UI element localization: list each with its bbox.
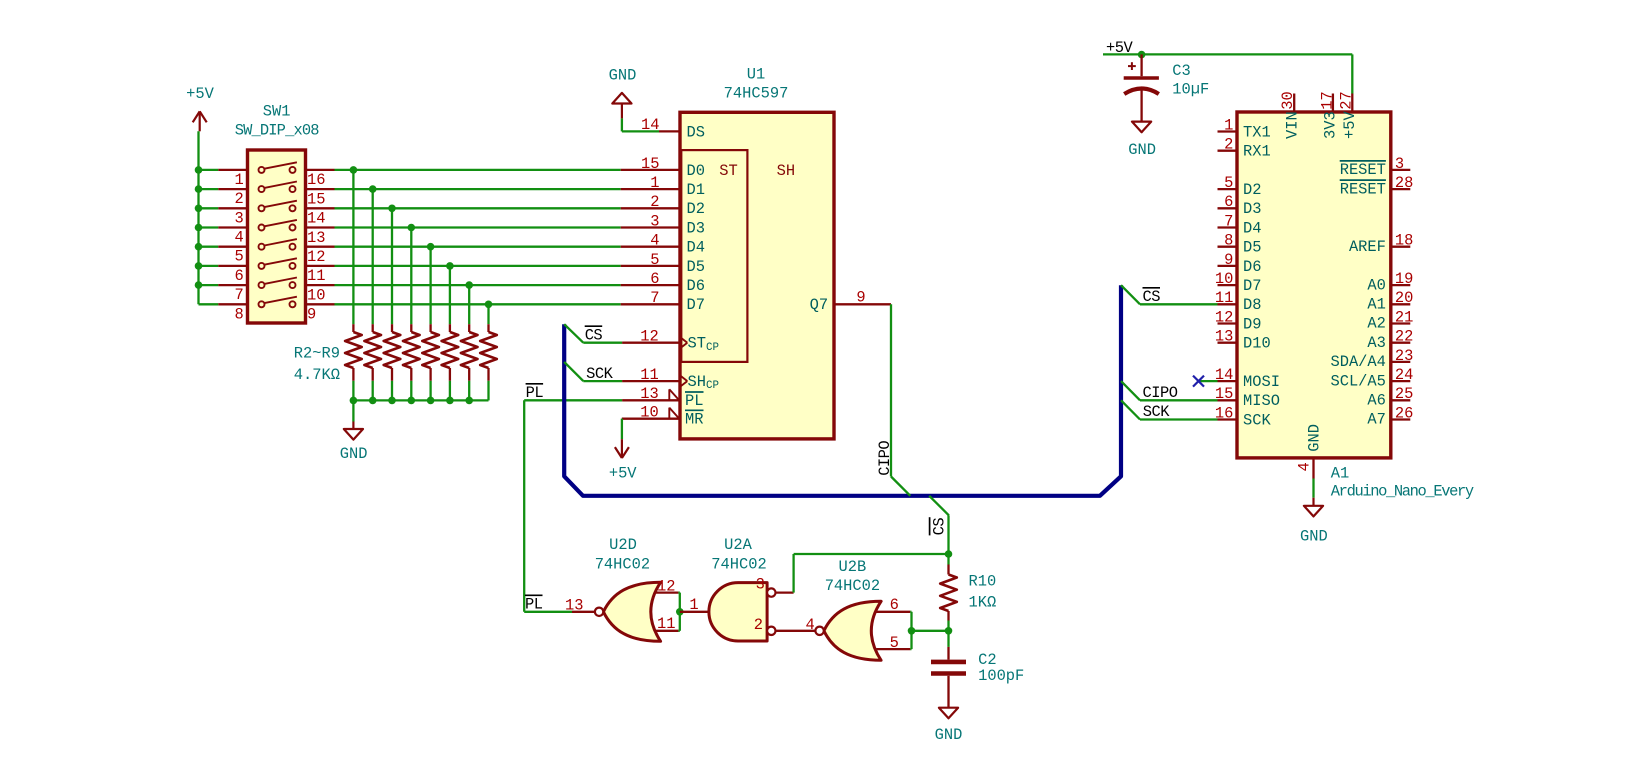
svg-text:+5V: +5V [609, 465, 637, 483]
svg-text:7: 7 [650, 289, 659, 307]
svg-text:MOSI: MOSI [1243, 373, 1280, 391]
svg-text:11: 11 [307, 267, 325, 285]
svg-text:28: 28 [1395, 174, 1413, 192]
svg-text:Q7: Q7 [810, 296, 828, 314]
svg-text:13: 13 [1215, 328, 1233, 346]
svg-text:U2A: U2A [724, 536, 752, 554]
svg-text:4: 4 [650, 232, 659, 250]
svg-text:6: 6 [235, 267, 244, 285]
svg-text:GND: GND [935, 726, 963, 744]
svg-text:SCK: SCK [586, 365, 613, 383]
svg-text:26: 26 [1395, 404, 1413, 422]
svg-text:1: 1 [689, 596, 698, 614]
svg-text:9: 9 [1224, 251, 1233, 269]
svg-text:12: 12 [640, 328, 658, 346]
svg-text:VIN: VIN [1284, 111, 1302, 139]
svg-text:A3: A3 [1367, 334, 1385, 352]
svg-text:4: 4 [805, 616, 814, 634]
svg-text:AREF: AREF [1349, 238, 1386, 256]
svg-text:GND: GND [1128, 141, 1156, 159]
svg-text:8: 8 [235, 305, 244, 323]
svg-text:17: 17 [1318, 91, 1336, 109]
svg-text:8: 8 [1224, 232, 1233, 250]
svg-text:4: 4 [1296, 462, 1314, 471]
svg-text:9: 9 [307, 306, 316, 324]
svg-text:3: 3 [1395, 155, 1404, 173]
svg-text:A1: A1 [1367, 296, 1385, 314]
svg-text:11: 11 [640, 366, 658, 384]
svg-text:SW_DIP_x08: SW_DIP_x08 [235, 122, 320, 140]
svg-text:12: 12 [307, 248, 325, 266]
svg-text:PL: PL [685, 392, 703, 410]
svg-text:D10: D10 [1243, 335, 1271, 353]
svg-text:R10: R10 [969, 572, 997, 590]
svg-text:U2B: U2B [839, 558, 867, 576]
svg-text:CIPO: CIPO [1143, 384, 1178, 402]
svg-text:16: 16 [307, 171, 325, 189]
svg-text:5: 5 [890, 634, 899, 652]
svg-text:R2~R9: R2~R9 [294, 345, 340, 363]
svg-text:2: 2 [650, 193, 659, 211]
svg-text:D3: D3 [1243, 200, 1261, 218]
svg-text:74HC02: 74HC02 [595, 556, 650, 574]
svg-text:9: 9 [856, 288, 865, 306]
svg-text:3V3: 3V3 [1322, 111, 1340, 139]
svg-text:5: 5 [1224, 174, 1233, 192]
svg-text:13: 13 [565, 596, 583, 614]
svg-text:2: 2 [754, 616, 763, 634]
svg-text:A0: A0 [1367, 276, 1385, 294]
svg-text:6: 6 [890, 596, 899, 614]
svg-text:22: 22 [1395, 328, 1413, 346]
svg-text:A7: A7 [1367, 411, 1385, 429]
svg-text:+5V: +5V [1106, 39, 1133, 57]
svg-text:GND: GND [340, 445, 368, 463]
svg-text:74HC597: 74HC597 [724, 85, 789, 103]
svg-text:1: 1 [235, 171, 244, 189]
svg-text:D5: D5 [1243, 239, 1261, 257]
svg-text:25: 25 [1395, 385, 1413, 403]
svg-text:GND: GND [609, 67, 637, 85]
svg-text:CS: CS [1143, 288, 1161, 306]
svg-text:10µF: 10µF [1172, 80, 1209, 98]
svg-text:SCK: SCK [1143, 403, 1170, 421]
svg-text:11: 11 [1215, 289, 1233, 307]
svg-text:14: 14 [1215, 366, 1233, 384]
svg-text:24: 24 [1395, 366, 1413, 384]
svg-text:10: 10 [1215, 270, 1233, 288]
svg-text:5: 5 [235, 248, 244, 266]
svg-text:D3: D3 [687, 219, 705, 237]
svg-text:D6: D6 [687, 277, 705, 295]
svg-text:14: 14 [641, 116, 659, 134]
svg-text:4.7KΩ: 4.7KΩ [294, 366, 340, 384]
svg-text:27: 27 [1338, 91, 1356, 109]
svg-text:CP: CP [706, 342, 719, 354]
svg-text:15: 15 [307, 190, 325, 208]
svg-text:SCL/A5: SCL/A5 [1330, 372, 1385, 390]
svg-text:SCK: SCK [1243, 411, 1271, 429]
svg-text:D2: D2 [1243, 181, 1261, 199]
svg-text:6: 6 [1224, 193, 1233, 211]
svg-text:GND: GND [1306, 424, 1324, 452]
svg-text:6: 6 [650, 270, 659, 288]
svg-text:PL: PL [526, 384, 544, 402]
svg-text:D7: D7 [687, 296, 705, 314]
svg-text:RESET: RESET [1340, 180, 1386, 198]
svg-text:2: 2 [235, 190, 244, 208]
svg-text:15: 15 [641, 155, 659, 173]
svg-text:14: 14 [307, 210, 325, 228]
svg-text:RX1: RX1 [1243, 143, 1271, 161]
svg-text:20: 20 [1395, 289, 1413, 307]
svg-text:7: 7 [1224, 212, 1233, 230]
svg-text:D0: D0 [687, 162, 705, 180]
svg-text:TX1: TX1 [1243, 123, 1271, 141]
svg-text:C3: C3 [1172, 62, 1190, 80]
svg-text:19: 19 [1395, 270, 1413, 288]
svg-text:D7: D7 [1243, 277, 1261, 295]
svg-text:1KΩ: 1KΩ [969, 593, 997, 611]
svg-text:D9: D9 [1243, 315, 1261, 333]
svg-text:1: 1 [1224, 116, 1233, 134]
svg-text:CS: CS [931, 518, 949, 536]
svg-text:74HC02: 74HC02 [825, 577, 880, 595]
svg-text:D4: D4 [1243, 219, 1261, 237]
svg-text:13: 13 [307, 229, 325, 247]
svg-text:ST: ST [719, 162, 737, 180]
svg-text:D5: D5 [687, 258, 705, 276]
svg-text:SDA/A4: SDA/A4 [1330, 353, 1385, 371]
svg-text:1: 1 [650, 174, 659, 192]
svg-text:SH: SH [777, 162, 795, 180]
svg-text:U1: U1 [747, 65, 765, 83]
svg-text:U2D: U2D [609, 536, 637, 554]
svg-text:3: 3 [756, 575, 765, 593]
svg-text:DS: DS [687, 123, 705, 141]
svg-text:D6: D6 [1243, 258, 1261, 276]
svg-text:74HC02: 74HC02 [711, 556, 766, 574]
svg-text:21: 21 [1395, 308, 1413, 326]
svg-text:MR: MR [685, 411, 703, 429]
svg-text:13: 13 [640, 385, 658, 403]
svg-text:D8: D8 [1243, 296, 1261, 314]
svg-text:11: 11 [657, 615, 675, 633]
svg-text:Arduino_Nano_Every: Arduino_Nano_Every [1331, 482, 1474, 500]
svg-text:4: 4 [235, 229, 244, 247]
svg-text:7: 7 [235, 286, 244, 304]
svg-text:2: 2 [1224, 136, 1233, 154]
svg-text:+5V: +5V [186, 85, 214, 103]
svg-text:16: 16 [1215, 404, 1233, 422]
svg-text:A2: A2 [1367, 315, 1385, 333]
svg-text:SH: SH [688, 373, 706, 391]
svg-text:+5V: +5V [1341, 111, 1359, 139]
svg-text:12: 12 [1215, 308, 1233, 326]
svg-text:15: 15 [1215, 385, 1233, 403]
svg-text:D4: D4 [687, 239, 705, 257]
svg-text:100pF: 100pF [978, 667, 1024, 685]
svg-text:PL: PL [525, 596, 543, 614]
svg-text:3: 3 [650, 212, 659, 230]
svg-text:12: 12 [657, 577, 675, 595]
svg-text:18: 18 [1395, 232, 1413, 250]
svg-text:D1: D1 [687, 181, 705, 199]
svg-text:30: 30 [1279, 91, 1297, 109]
svg-text:RESET: RESET [1340, 161, 1386, 179]
svg-text:3: 3 [235, 209, 244, 227]
svg-text:5: 5 [650, 251, 659, 269]
svg-text:10: 10 [307, 286, 325, 304]
svg-text:23: 23 [1395, 347, 1413, 365]
svg-text:CIPO: CIPO [876, 441, 894, 476]
svg-text:MISO: MISO [1243, 392, 1280, 410]
svg-text:ST: ST [688, 335, 706, 353]
svg-text:A6: A6 [1367, 392, 1385, 410]
svg-text:D2: D2 [687, 200, 705, 218]
svg-text:CP: CP [706, 380, 719, 392]
svg-text:SW1: SW1 [263, 103, 291, 121]
svg-text:A1: A1 [1331, 465, 1349, 483]
svg-text:GND: GND [1300, 528, 1328, 546]
svg-text:CS: CS [585, 326, 603, 344]
